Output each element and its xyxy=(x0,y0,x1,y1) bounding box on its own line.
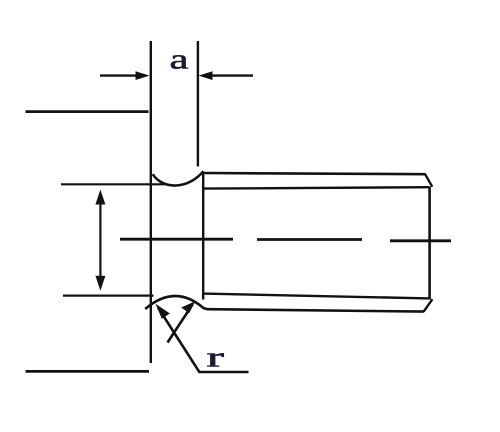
extension line for diameter bottom xyxy=(63,295,154,297)
extension line right of groove (vertical, short) xyxy=(197,41,199,167)
diameter arrow head bottom xyxy=(95,276,105,291)
diameter double arrow shaft xyxy=(99,201,101,280)
dimension arrow a left (points right) xyxy=(100,74,139,76)
centerline dash 2 xyxy=(257,238,362,241)
r leader line with bend xyxy=(158,308,249,373)
shaft top chamfer xyxy=(425,174,433,187)
extension line left of groove (vertical, full height) xyxy=(150,41,152,363)
shaft top inner (root) line xyxy=(202,187,430,188)
svg-text:a: a xyxy=(170,43,189,75)
groove top arc xyxy=(153,171,204,185)
shaft bottom outer edge xyxy=(208,309,424,311)
shaft bottom inner (root) line xyxy=(203,294,430,299)
centerline dash 3 xyxy=(390,239,451,242)
shaft top outer edge xyxy=(205,173,426,174)
shaft bottom chamfer xyxy=(424,299,433,312)
r leader arrow head right xyxy=(181,301,195,313)
r leader arrow head left xyxy=(156,304,170,319)
shoulder bottom edge line xyxy=(26,370,150,373)
svg-text:r: r xyxy=(207,341,225,373)
groove bottom arc xyxy=(145,296,208,309)
r leader second arrow shaft xyxy=(168,305,193,343)
extension line for diameter top xyxy=(61,183,167,185)
centerline dash 1 xyxy=(120,238,233,241)
diameter arrow head top xyxy=(95,190,105,205)
dimension arrow a right (points left) xyxy=(211,74,253,76)
shaft right end edge xyxy=(428,187,431,300)
shoulder top edge line xyxy=(26,110,149,113)
shaft left end edge xyxy=(202,172,204,300)
